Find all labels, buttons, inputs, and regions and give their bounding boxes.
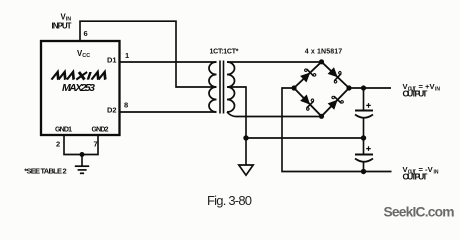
- svg-text:1: 1: [125, 51, 129, 60]
- svg-text:SeekIC.com: SeekIC.com: [384, 205, 455, 220]
- svg-text:IN: IN: [435, 86, 440, 92]
- svg-text:7: 7: [94, 140, 98, 149]
- svg-text:GND1: GND1: [55, 127, 72, 134]
- svg-text:6: 6: [84, 29, 88, 38]
- svg-text:8: 8: [124, 101, 128, 110]
- svg-text:D2: D2: [107, 106, 117, 115]
- svg-text:D1: D1: [107, 56, 117, 65]
- svg-text:CC: CC: [82, 53, 90, 59]
- svg-text:1CT:1CT*: 1CT:1CT*: [210, 49, 239, 56]
- svg-text:4 x 1N5817: 4 x 1N5817: [305, 49, 342, 56]
- svg-text:OUTPUT: OUTPUT: [403, 172, 429, 182]
- svg-text:IN: IN: [434, 169, 439, 175]
- svg-text:Fig. 3-80: Fig. 3-80: [207, 193, 252, 208]
- svg-text:2: 2: [56, 140, 60, 149]
- svg-text:*SEE TABLE 2: *SEE TABLE 2: [24, 167, 66, 176]
- svg-text:MAX253: MAX253: [62, 82, 95, 94]
- svg-text:INPUT: INPUT: [52, 21, 72, 30]
- svg-text:GND2: GND2: [92, 127, 109, 134]
- svg-text:OUTPUT: OUTPUT: [403, 89, 429, 99]
